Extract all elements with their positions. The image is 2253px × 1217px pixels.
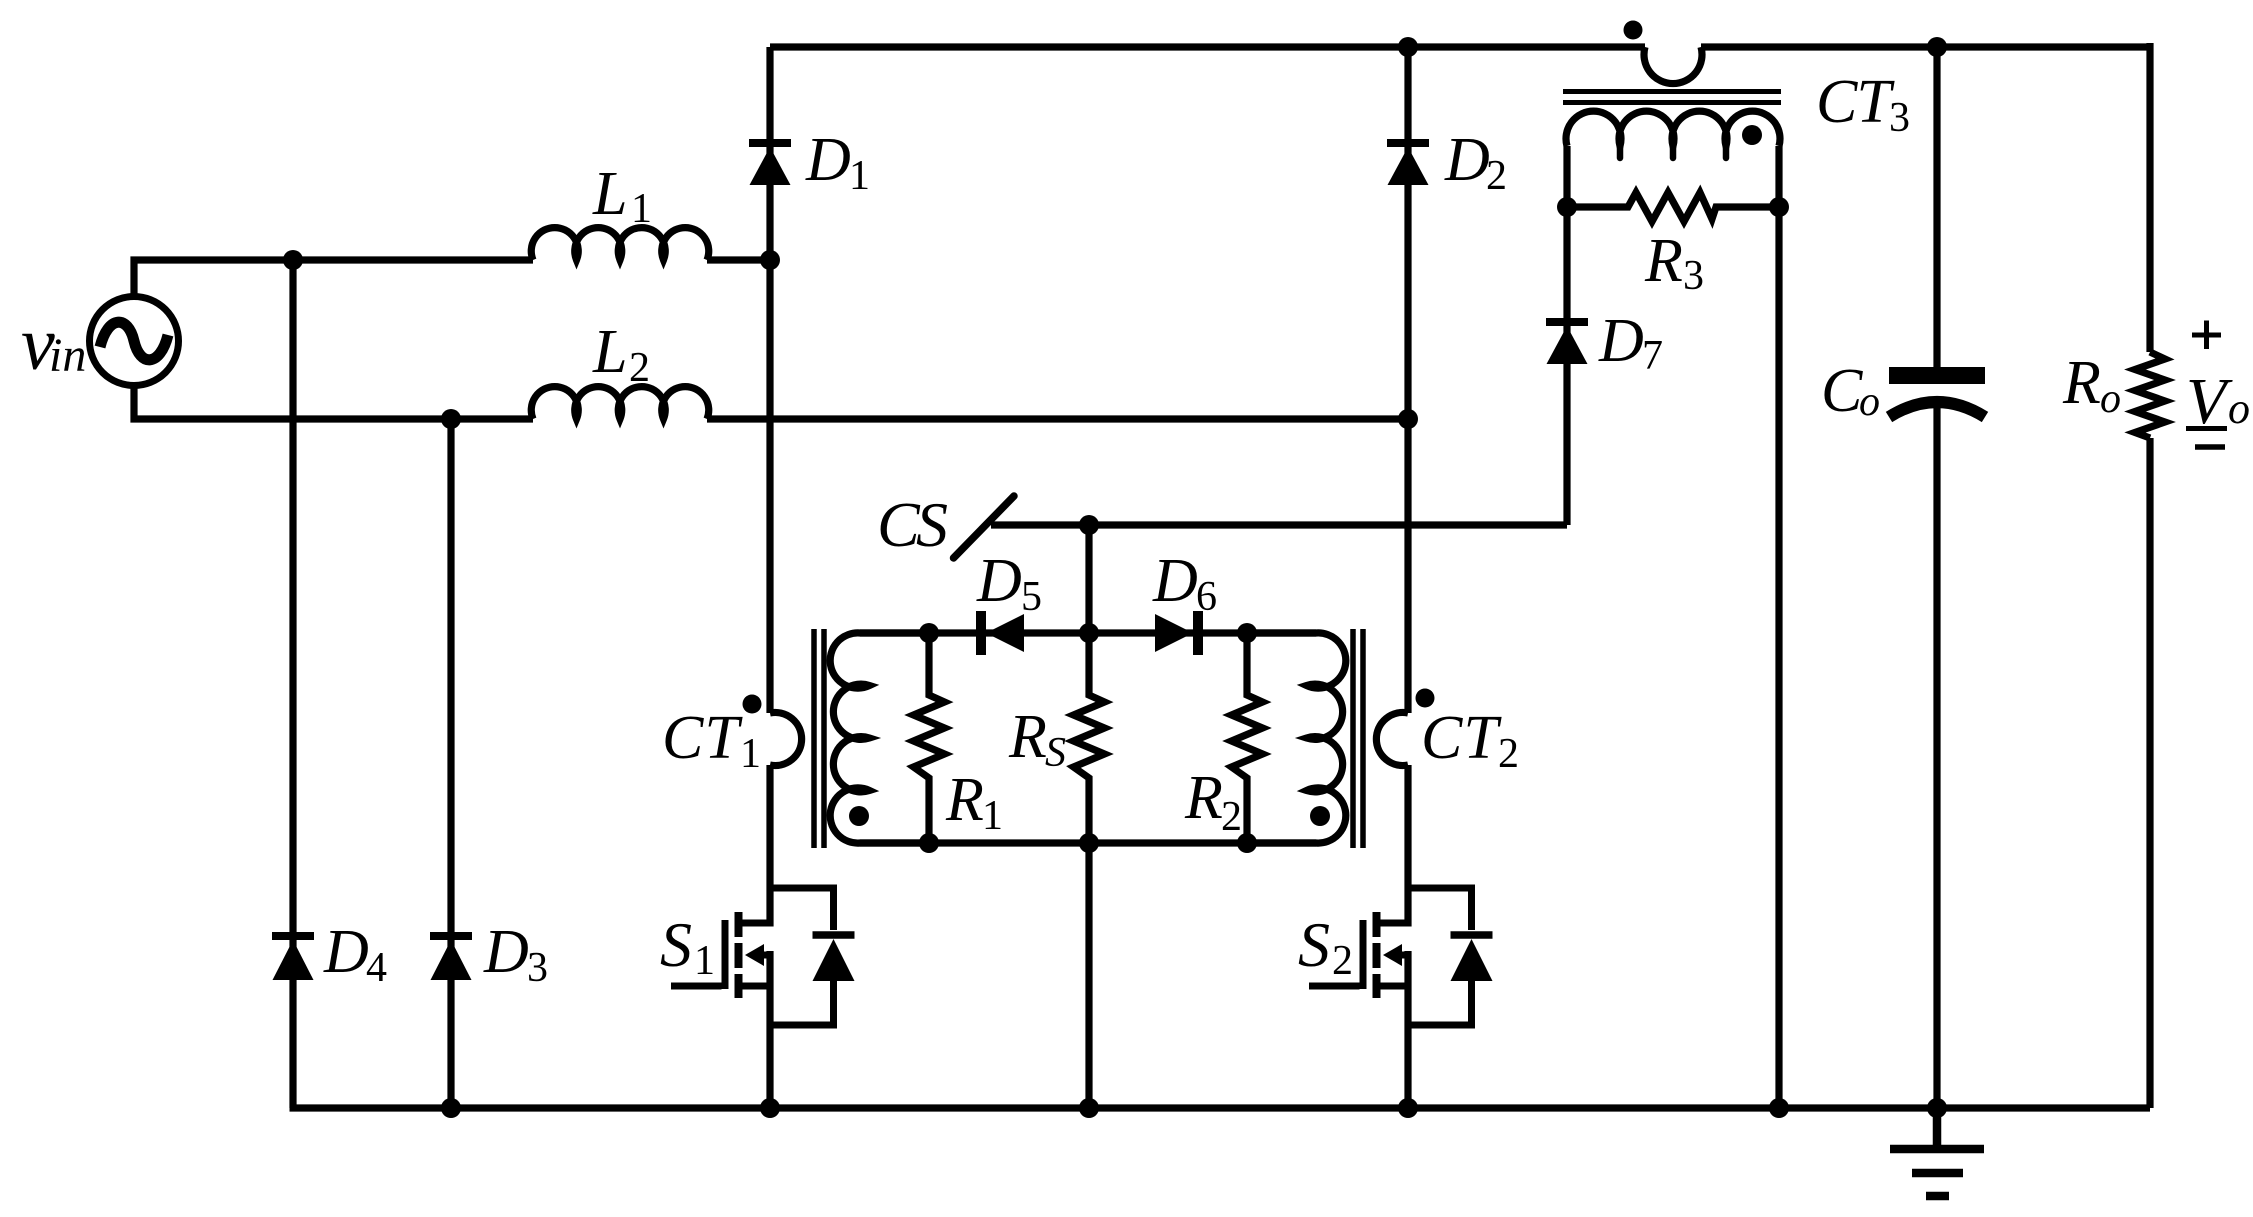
svg-text:1: 1 [694, 938, 715, 984]
svg-text:R: R [1008, 703, 1047, 771]
svg-text:o: o [1859, 379, 1880, 425]
svg-text:S: S [660, 909, 692, 980]
svg-text:o: o [2100, 376, 2121, 422]
svg-text:1: 1 [631, 186, 652, 232]
svg-text:S: S [1045, 730, 1066, 776]
svg-text:L: L [592, 160, 627, 228]
svg-text:3: 3 [527, 945, 548, 991]
svg-text:o: o [2228, 384, 2250, 433]
svg-text:3: 3 [1889, 95, 1910, 141]
svg-text:1: 1 [849, 153, 870, 199]
svg-text:6: 6 [1196, 574, 1217, 620]
svg-text:2: 2 [1221, 794, 1242, 840]
svg-text:L: L [592, 318, 627, 386]
svg-text:CS: CS [877, 489, 948, 560]
svg-text:CT: CT [662, 704, 744, 772]
svg-text:5: 5 [1021, 574, 1042, 620]
svg-text:D: D [1598, 307, 1644, 375]
svg-text:S: S [1298, 909, 1330, 980]
svg-text:in: in [49, 329, 86, 382]
svg-text:D: D [483, 918, 529, 986]
svg-text:C: C [1821, 357, 1863, 425]
svg-text:1: 1 [982, 793, 1003, 839]
svg-text:7: 7 [1642, 333, 1663, 379]
svg-text:2: 2 [1498, 731, 1519, 777]
svg-text:R: R [2062, 349, 2101, 417]
svg-text:2: 2 [1332, 938, 1353, 984]
svg-text:D: D [805, 126, 851, 194]
svg-text:R: R [1184, 764, 1223, 832]
svg-text:4: 4 [366, 945, 387, 991]
svg-text:D: D [1152, 547, 1198, 615]
svg-text:CT: CT [1816, 68, 1896, 136]
svg-text:2: 2 [629, 345, 650, 391]
svg-text:R: R [1644, 227, 1683, 295]
svg-text:D: D [323, 918, 369, 986]
svg-text:3: 3 [1683, 253, 1704, 299]
svg-text:CT: CT [1421, 704, 1503, 772]
svg-text:D: D [976, 547, 1022, 615]
svg-text:R: R [945, 766, 984, 834]
svg-text:1: 1 [740, 731, 761, 777]
svg-text:2: 2 [1486, 153, 1507, 199]
svg-text:D: D [1444, 126, 1490, 194]
